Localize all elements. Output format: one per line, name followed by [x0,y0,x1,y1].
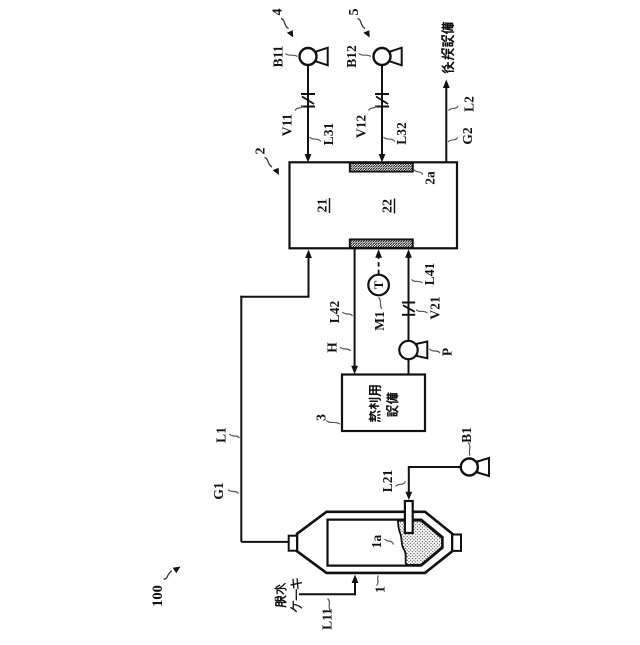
svg-text:L1: L1 [214,427,229,443]
label 5 [347,9,370,38]
label L11 [320,599,335,630]
svg-text:B12: B12 [344,45,359,68]
label V21 [416,296,443,319]
label 21 underlined [316,198,331,213]
blower B1 [461,458,489,476]
blower P on L41 [399,341,427,359]
label 4 [271,9,294,38]
label L21 [380,470,406,493]
label P [430,348,455,356]
svg-text:V21: V21 [428,296,443,319]
label L2 [449,96,477,112]
svg-text:G1: G1 [211,482,226,500]
svg-text:L41: L41 [422,263,437,286]
dryer right shaft stub [452,535,461,551]
svg-text:22: 22 [381,199,396,213]
label H [325,342,351,353]
wire L2/G2 (chamber 2 to downstream) [443,80,450,163]
svg-text:V12: V12 [354,115,369,138]
svg-text:21: 21 [316,199,331,213]
svg-text:L2: L2 [462,96,477,112]
dryer left shaft stub [289,536,297,551]
wire L11 (cake feed into dryer) [299,575,358,596]
wire G1/L1 (dryer 1 to chamber 2) [240,250,312,542]
blower B12 [374,48,402,66]
blower B11 [300,48,328,66]
label G2 [448,127,475,145]
wire L41 (heat equipment 3 to chamber 2) [405,249,412,374]
label 2 [254,148,280,176]
svg-text:H: H [325,342,340,353]
svg-text:L42: L42 [327,301,342,324]
svg-text:2: 2 [254,148,269,155]
label B1 [459,427,474,456]
svg-text:1: 1 [374,586,389,593]
label B12 [344,45,371,68]
filter bottom bar [350,239,413,248]
svg-text:2a: 2a [423,171,438,185]
label L42 [327,301,353,324]
valve V12 [375,94,389,107]
label 3 [315,414,341,424]
valve V21 [402,303,415,315]
feed nozzle on dryer [405,501,413,533]
text 熱利用設備 (heat utilization equipment) in box 3 [369,386,397,421]
label L32 [384,122,410,145]
filter 2a top bar [350,163,413,172]
label L31 [310,123,337,146]
wire H/L42 (chamber 2 to heat equipment 3) [351,248,358,374]
svg-text:100: 100 [150,585,166,607]
label G1 [211,482,239,500]
label B11 [271,45,298,67]
wire L31 (B11 to chamber 2) [305,65,312,163]
wire M1 dashed (sensor T to chamber 2) [375,249,382,274]
label V11 [280,106,304,137]
heat equipment box 3 [342,375,425,432]
valve V11 [301,94,315,107]
label 1a [369,535,394,549]
text 脱水ケーキ (dewatered cake) [275,579,301,612]
svg-text:L21: L21 [380,470,395,493]
text 後段設備 (downstream equipment) [442,23,453,73]
svg-text:B1: B1 [459,427,474,443]
svg-text:1a: 1a [369,535,384,549]
svg-text:5: 5 [347,9,362,16]
svg-text:L31: L31 [321,123,336,146]
label 2a [414,170,438,185]
label 100 [150,567,181,607]
label M1 [372,298,387,331]
wire L32 (B12 to chamber 2) [379,65,386,162]
dryer 1 outer shell [297,512,452,573]
svg-text:L11: L11 [320,608,335,630]
sensor T circle [368,275,389,296]
svg-text:B11: B11 [271,45,286,67]
svg-text:V11: V11 [280,114,295,137]
label L41 [412,263,438,286]
label 22 underlined [381,199,396,214]
chamber 2 box [290,162,458,248]
dryer inner wall [328,520,443,566]
svg-text:G2: G2 [460,127,475,145]
label 1 [374,576,389,594]
wire L21 (B1 to dryer nozzle) [405,466,460,500]
svg-text:4: 4 [271,9,286,16]
svg-text:L32: L32 [394,122,409,145]
svg-text:P: P [440,348,455,356]
svg-text:3: 3 [315,414,330,421]
svg-text:M1: M1 [372,311,387,331]
label V12 [354,106,378,139]
material heap 1a [398,521,442,565]
svg-text:T: T [371,280,386,289]
label L1 [214,427,240,443]
